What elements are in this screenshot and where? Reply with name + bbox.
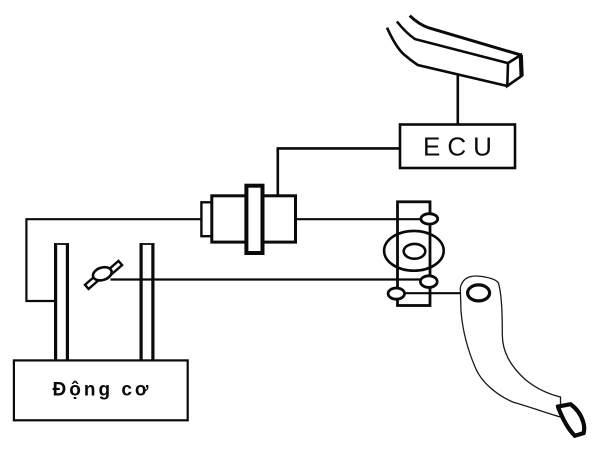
pedal pivot hole <box>468 285 490 301</box>
accelerator pedal arm <box>460 276 560 417</box>
sensor top bolt <box>421 214 438 224</box>
throttle lever 3D bar bottom-front edge <box>387 28 507 86</box>
sensor mid bolt <box>420 276 437 288</box>
throttle motor left cap <box>201 202 211 236</box>
pedal position sensor body <box>398 202 431 306</box>
butterfly throttle valve upper wing <box>108 261 122 274</box>
right intake pipe <box>140 243 155 360</box>
sensor inner ellipse <box>404 244 426 259</box>
wire lever to ECU <box>456 74 459 126</box>
svg-text:Động cơ: Động cơ <box>53 380 152 401</box>
throttle lever end face right edge (thick) <box>519 55 524 76</box>
butterfly throttle valve lower wing <box>85 275 100 289</box>
throttle lever end face <box>507 55 521 86</box>
wire motor to left elbow down to pipe <box>26 219 201 301</box>
engine box <box>14 360 188 420</box>
throttle motor middle flange <box>246 186 262 253</box>
butterfly throttle valve disc <box>91 265 113 283</box>
throttle lever 3D bar top-back edge <box>410 16 521 55</box>
sensor big ellipse <box>384 231 444 271</box>
wire sensor to pedal <box>404 292 462 294</box>
throttle lever 3D bar top-front edge <box>397 22 508 64</box>
sensor wire overlay (motor wire crossing body) <box>398 218 423 220</box>
wire motor to pedal sensor top bolt <box>296 218 423 220</box>
svg-text:ECU: ECU <box>423 132 499 162</box>
throttle motor body <box>212 196 296 242</box>
wire throttle valve to pedal sensor mid bolt <box>111 278 421 280</box>
pedal pad <box>558 404 584 436</box>
sensor bottom-left bolt <box>388 288 404 299</box>
left intake pipe <box>54 243 69 360</box>
ECU box <box>400 125 515 169</box>
wire ECU to motor <box>278 148 400 196</box>
